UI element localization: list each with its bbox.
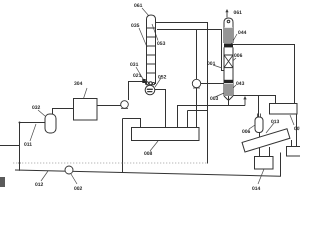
svg-text:061: 061 bbox=[234, 10, 243, 16]
svg-text:032: 032 bbox=[32, 105, 41, 111]
svg-text:043: 043 bbox=[236, 81, 245, 87]
svg-text:035: 035 bbox=[131, 23, 140, 29]
svg-text:002: 002 bbox=[74, 186, 83, 192]
svg-text:011: 011 bbox=[24, 142, 32, 148]
svg-text:006: 006 bbox=[242, 129, 251, 135]
svg-text:014: 014 bbox=[252, 186, 261, 192]
svg-text:021: 021 bbox=[133, 73, 142, 79]
svg-text:052: 052 bbox=[158, 75, 167, 81]
svg-text:003: 003 bbox=[210, 96, 219, 102]
svg-text:044: 044 bbox=[238, 30, 247, 36]
svg-text:012: 012 bbox=[35, 182, 44, 188]
svg-text:031: 031 bbox=[130, 62, 139, 68]
svg-text:008: 008 bbox=[144, 151, 153, 157]
svg-text:053: 053 bbox=[157, 41, 166, 47]
svg-text:006: 006 bbox=[234, 53, 243, 59]
svg-text:007: 007 bbox=[294, 126, 300, 132]
svg-text:304: 304 bbox=[74, 81, 83, 87]
svg-text:001: 001 bbox=[207, 61, 216, 67]
svg-text:013: 013 bbox=[271, 119, 280, 125]
svg-text:061: 061 bbox=[134, 3, 143, 9]
